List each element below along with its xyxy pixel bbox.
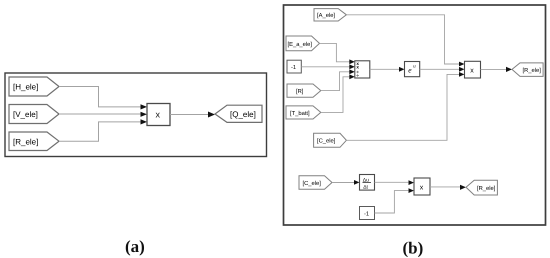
arrow into R_ele goto (lower) (460, 185, 466, 190)
goto tag [R_ele] lower (466, 180, 497, 195)
svg-text:x: x (420, 185, 424, 192)
svg-text:[R_ele]: [R_ele] (13, 137, 38, 146)
subsystem box (a) (5, 73, 267, 157)
wire V_ele to product (59, 113, 141, 115)
wire product to Q_ele (170, 114, 209, 116)
from tag [H_ele] (9, 77, 59, 96)
arrows into divide block (349, 59, 355, 64)
svg-text:x: x (470, 67, 474, 74)
from tag [T_batt] (286, 106, 321, 119)
math function e^u block (405, 62, 420, 77)
svg-text:(a): (a) (125, 237, 145, 256)
arrows into x-block (upper b) (459, 62, 465, 67)
svg-text:[V_ele]: [V_ele] (13, 110, 38, 119)
wire -1 to divide in2 (301, 66, 350, 68)
arrow into derivative (354, 180, 360, 185)
svg-text:[E_a_ele]: [E_a_ele] (288, 41, 313, 48)
from tag [C_ele] upper (314, 133, 347, 147)
subsystem box (b) (284, 5, 546, 225)
wire A_ele to x-block in1 (346, 15, 459, 64)
arrow into exp (399, 67, 405, 72)
wire divide to exp (370, 68, 399, 70)
svg-text:-1: -1 (364, 212, 369, 218)
svg-text:-1: -1 (291, 65, 296, 71)
arrow into Q_ele (208, 112, 215, 118)
arrow into product in3 (141, 119, 148, 124)
wire C_ele to derivative (332, 182, 354, 184)
constant -1 (upper) (287, 60, 301, 73)
arrow into product in1 (141, 104, 148, 109)
from tag [C_ele] lower (299, 176, 332, 189)
svg-text:Δt: Δt (363, 184, 368, 190)
from tag [R] (287, 84, 321, 97)
svg-text:[A_ele]: [A_ele] (317, 12, 335, 19)
svg-text:[C_ele]: [C_ele] (303, 180, 322, 187)
wire exp to x-block in2 (420, 68, 459, 70)
from tag [V_ele] (9, 105, 59, 124)
wire -1 to x-block (lower) (375, 191, 409, 213)
wire H_ele to product (59, 87, 141, 107)
svg-text:[R]: [R] (296, 88, 304, 95)
svg-text:[H_ele]: [H_ele] (13, 83, 38, 92)
product block (a) (147, 104, 170, 126)
wire R_ele to product (59, 122, 141, 141)
wire C_ele to x-block in3 (346, 74, 459, 140)
svg-text:[R_ele]: [R_ele] (477, 185, 496, 192)
arrow into product in2 (141, 112, 148, 117)
product x block (lower) (414, 178, 430, 195)
wire E_a_ele to divide in1 (320, 43, 351, 61)
svg-text:x: x (156, 110, 161, 120)
svg-text:[T_batt]: [T_batt] (290, 110, 310, 117)
wire derivative to x-block (lower) (375, 181, 409, 183)
from tag [R_ele] (9, 132, 59, 151)
wire R to divide in3 (321, 72, 350, 91)
wire x-block to R_ele goto (481, 68, 507, 70)
product x block (upper b) (465, 61, 481, 78)
constant -1 (lower) (360, 207, 375, 220)
svg-text:(b): (b) (403, 239, 424, 258)
divide block (355, 61, 370, 78)
arrows into x-block (lower) (409, 180, 415, 185)
svg-text:[C_ele]: [C_ele] (317, 138, 336, 145)
goto tag [R_ele] upper (512, 63, 543, 77)
arrow into R_ele goto (506, 67, 512, 72)
derivative du/dt block (360, 175, 375, 191)
wire T_batt to divide in4 (321, 77, 350, 113)
from tag [E_a_ele] (286, 36, 320, 51)
goto tag [Q_ele] (215, 105, 262, 122)
svg-text:[Q_ele]: [Q_ele] (230, 110, 256, 119)
from tag [A_ele] (314, 9, 346, 21)
wire x-block to R_ele goto (lower) (430, 186, 461, 188)
svg-text:[R_ele]: [R_ele] (523, 67, 542, 74)
